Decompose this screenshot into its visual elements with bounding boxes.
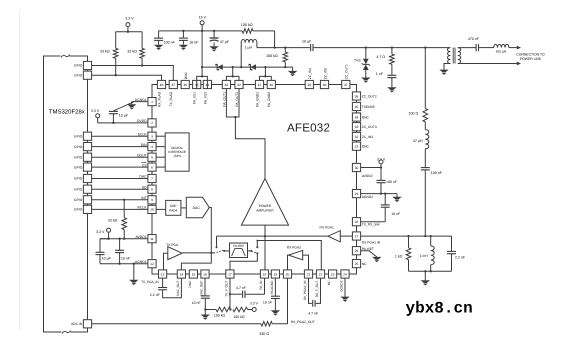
svg-text:PA_VS2: PA_VS2: [203, 92, 207, 104]
capacitor 470 nF: [468, 37, 480, 51]
resistor 33 kΩ (right pull-up): [140, 32, 145, 66]
wire DAC to DAC_OUT (pin 14): [181, 208, 211, 270]
svg-text:100 nF: 100 nF: [431, 171, 443, 175]
svg-text:RX PGA1: RX PGA1: [320, 225, 334, 229]
AFE pin 13 TX_PGA_IN: [141, 270, 167, 284]
AFE pin 8 SD: [142, 185, 156, 193]
svg-text:AGND1: AGND1: [135, 260, 147, 264]
label 100 kΩ: [241, 23, 253, 27]
svg-text:10 µF: 10 µF: [302, 40, 312, 44]
svg-text:42: 42: [237, 83, 241, 87]
label RX_PGA2_OUT: [291, 320, 315, 324]
AFE pin 38 ZC_IN2: [320, 68, 328, 89]
junction 15V rail a: [182, 30, 184, 32]
wire PA_OUT riser: [232, 67, 234, 76]
wire TX PGA input to pin 13: [164, 253, 168, 270]
AFE pin 4 DIN: [141, 143, 156, 151]
wire PA ISET to ground: [361, 251, 382, 263]
label 4.7 nF: [236, 286, 246, 290]
svg-text:RX PGA2: RX PGA2: [287, 246, 301, 250]
wire GPIO to DIN: [92, 146, 148, 148]
wire to TVS node: [314, 47, 450, 49]
wire AGND2: [361, 193, 397, 195]
capacitor 100 nF (15V): [154, 31, 163, 50]
supply terminal 3.3 V (DVDD): [91, 109, 100, 123]
AFE pin 11 AVDD1: [136, 235, 157, 243]
label 330 Ω: [259, 332, 269, 336]
svg-text:3.3 V: 3.3 V: [250, 302, 259, 306]
op-amp TX PGA: [166, 243, 182, 260]
svg-text:1 nF: 1 nF: [376, 72, 384, 76]
wire PA_OUT pin bracket: [226, 89, 239, 118]
svg-text:SCLK: SCLK: [138, 132, 148, 136]
svg-text:ybx8.cn: ybx8.cn: [406, 299, 473, 317]
AFE pin 29 AGND2: [352, 190, 373, 200]
svg-text:5: 5: [151, 155, 153, 159]
wire filter left contact: [224, 250, 229, 252]
resistor 100 kΩ (to gnd): [283, 46, 288, 68]
AFE pin 3 SCLK: [138, 132, 156, 140]
svg-text:15 V: 15 V: [199, 16, 207, 20]
capacitor 4.7 nF (RX coupling): [309, 278, 321, 307]
diode TVS (bidirectional): [361, 48, 370, 83]
DSP pin GPIO (spi 3): [74, 153, 92, 161]
AFE pin 24 DGND2: [339, 270, 349, 292]
op-amp RX PGA2: [287, 246, 303, 260]
svg-text:AVDD1: AVDD1: [136, 235, 147, 239]
svg-text:SD: SD: [142, 185, 147, 189]
wire pull-up rail: [116, 31, 142, 33]
wire ADC IN: [92, 323, 262, 325]
svg-text:DNC: DNC: [188, 280, 192, 288]
wire right throw to TX_F_OUT (pin 17): [230, 253, 257, 270]
svg-text:TX_PGA_IN: TX_PGA_IN: [141, 280, 159, 284]
svg-text:2.2 nF: 2.2 nF: [455, 255, 466, 259]
wire 15V to PA_VS: [201, 31, 203, 67]
resistor 100 Ω: [423, 109, 428, 122]
AFE pin 45 PA_VS1: [193, 80, 201, 104]
svg-text:4.7 nF: 4.7 nF: [308, 312, 318, 316]
AFE pin 39 ZC_IN1: [305, 68, 313, 89]
switch (TX/RX right): [250, 246, 258, 254]
svg-text:24: 24: [343, 272, 347, 276]
wire GPIO to CS: [92, 166, 148, 168]
wire PA_GND riser: [264, 67, 266, 76]
svg-text:ZC_OUT3: ZC_OUT3: [362, 125, 377, 129]
DSP pin GPIO (spi 6): [74, 185, 92, 193]
DSP pin ADC IN: [71, 320, 91, 328]
svg-text:3: 3: [151, 134, 153, 138]
wire line out (neutral): [458, 62, 521, 66]
junction tank top c: [430, 235, 432, 237]
label TVS: [354, 59, 361, 63]
wire r-l: [424, 122, 426, 130]
TMS320F28x label: [49, 108, 85, 115]
svg-text:DVDD: DVDD: [137, 119, 147, 123]
svg-text:26: 26: [355, 249, 359, 253]
svg-text:PA_GND1: PA_GND1: [255, 92, 259, 107]
wire line out (hot): [509, 46, 521, 50]
svg-text:PAD4: PAD4: [169, 208, 177, 212]
DSP pin GPIO (spi 4): [74, 163, 92, 171]
label 10 uF: [102, 256, 112, 260]
resistor 33 kΩ (left pull-up): [113, 32, 118, 75]
AFE pin 22 RX_F_OUT: [315, 270, 325, 297]
svg-text:100 µH: 100 µH: [496, 50, 507, 54]
ground (AGND1): [129, 263, 138, 286]
svg-text:10 nF: 10 nF: [121, 256, 131, 260]
label 100 kΩ: [214, 314, 226, 318]
svg-text:TSENSE: TSENSE: [362, 105, 376, 109]
label 10 nF: [263, 301, 272, 305]
wire right throw to RX_F_OUT (pin 22): [256, 240, 321, 270]
supply terminal 3.3 V (AVDD2): [377, 158, 386, 168]
op-amp RX PGA1: [320, 225, 341, 242]
wire GPIO to DOUT: [92, 156, 148, 158]
svg-text:ZC_IN1: ZC_IN1: [308, 68, 312, 80]
AFE pin 42 PA_OUT2: [235, 80, 243, 106]
svg-text:7: 7: [151, 177, 153, 181]
ground (diode rail): [288, 67, 297, 76]
op-amp POWER AMPLIFIER: [241, 179, 288, 226]
svg-text:47 µF: 47 µF: [220, 40, 230, 44]
capacitor 1 nF: [387, 75, 396, 92]
svg-text:17: 17: [228, 272, 232, 276]
svg-text:RCLK: RCLK: [138, 206, 148, 210]
wire left throw up: [216, 236, 218, 247]
capacitor 10 nF (DAC_REF): [201, 278, 210, 311]
DAC block: [186, 197, 209, 218]
svg-text:TX_F_OUT: TX_F_OUT: [224, 281, 228, 297]
capacitor 2.2 nF: [447, 236, 456, 271]
AFE pin 27 RX PGA1 IN: [352, 232, 380, 244]
DSP pin GPIO (top 2): [74, 71, 92, 79]
svg-text:100 kΩ: 100 kΩ: [214, 314, 226, 318]
label 33 kΩ: [100, 50, 110, 54]
svg-text:AGND2: AGND2: [362, 195, 374, 199]
svg-text:33 kΩ: 33 kΩ: [100, 50, 110, 54]
svg-text:GPIO: GPIO: [74, 73, 83, 77]
svg-text:4: 4: [151, 145, 153, 149]
resistor 100 kΩ (ref high): [233, 307, 252, 312]
junction INT pull-up: [123, 199, 125, 201]
svg-text:GPIO: GPIO: [74, 145, 83, 149]
AFE pin 41 PA_GND1: [255, 80, 263, 107]
svg-text:10 µF: 10 µF: [119, 114, 129, 118]
label 47 uH: [413, 139, 423, 143]
wire RCLK to DSP PAD4: [156, 208, 166, 210]
capacitor 10 nF (AVDD1): [115, 238, 124, 265]
svg-text:37: 37: [344, 83, 348, 87]
svg-text:22: 22: [319, 272, 323, 276]
label 100 kΩ: [266, 54, 278, 58]
svg-text:10: 10: [150, 208, 154, 212]
capacitor 4.7 nF (TX filter): [230, 291, 265, 298]
svg-text:GPIO: GPIO: [74, 208, 83, 212]
diode D2 (clamp to gnd): [249, 64, 256, 70]
AFE pin 30 AVDD2: [352, 163, 372, 177]
wire RX PGA1 IN rail: [361, 235, 426, 237]
svg-text:100 nF: 100 nF: [386, 180, 397, 184]
svg-text:4.7 Ω: 4.7 Ω: [376, 55, 385, 59]
wire AVDD2: [361, 166, 382, 168]
label 10 nF: [192, 301, 201, 305]
svg-text:40: 40: [269, 83, 273, 87]
svg-text:38: 38: [323, 83, 327, 87]
junction 15V rail b: [201, 30, 203, 32]
TMS320F28x DSP box: [44, 54, 88, 334]
svg-text:PA_OUT1: PA_OUT1: [222, 92, 226, 107]
wire 15V rail: [159, 30, 275, 32]
wire GPIO to RX_FLAG (pin 48): [92, 75, 162, 80]
wire PA input rail: [217, 235, 329, 237]
junction 15V rail c: [213, 30, 215, 32]
capacitor 47 uF (15V): [209, 31, 218, 52]
inductor 1 uH: [241, 39, 257, 67]
svg-text:330 Ω: 330 Ω: [259, 332, 269, 336]
wire GPIO to RCLK: [92, 208, 148, 210]
svg-text:100 kΩ: 100 kΩ: [266, 54, 278, 58]
label 1 nF: [376, 72, 384, 76]
AFE pin 23 NC: [327, 270, 337, 285]
AFE pin 48 RX_FLAG: [157, 80, 165, 106]
svg-text:10 µF: 10 µF: [102, 256, 112, 260]
AFE pin 40 PA_GND2: [267, 80, 275, 107]
wire l-c: [424, 149, 426, 168]
svg-text:DOUT: DOUT: [137, 153, 147, 157]
svg-text:RX PGA1 IN: RX PGA1 IN: [362, 240, 381, 244]
AFE pin 43 PA_OUT1: [222, 80, 230, 106]
AFE032 label: [287, 122, 330, 135]
svg-text:DGND1: DGND1: [135, 98, 147, 102]
svg-text:PA_OUT2: PA_OUT2: [235, 92, 239, 107]
wire tank top rail: [425, 235, 451, 237]
capacitor 10 nF (PA AGND): [271, 278, 280, 310]
svg-text:16: 16: [203, 272, 207, 276]
svg-text:1 µH: 1 µH: [245, 46, 253, 50]
label 100 kΩ: [233, 315, 245, 319]
wire diode rail: [202, 66, 293, 68]
supply terminal 15 V: [199, 16, 207, 31]
svg-text:41: 41: [258, 83, 262, 87]
junction 1uH tap: [240, 66, 242, 68]
svg-text:12: 12: [150, 262, 154, 266]
wire feedback down: [273, 31, 275, 49]
svg-text:TX_RX_SW: TX_RX_SW: [362, 222, 381, 226]
label 4.7 Ω: [376, 55, 385, 59]
capacitor 10 uF (DVDD): [109, 111, 118, 124]
svg-text:36: 36: [355, 94, 359, 98]
svg-text:GPIO: GPIO: [74, 198, 83, 202]
wire PA output up to PA_OUT pins: [235, 117, 265, 179]
svg-text:19: 19: [274, 272, 278, 276]
wire TX_RX_SW: [361, 221, 386, 223]
junction PA_OUT riser: [232, 66, 234, 68]
svg-text:POWER LINE: POWER LINE: [520, 57, 542, 61]
AFE pin 33 ZC_OUT3: [352, 123, 376, 131]
AFE pin 44 PA_VS2: [203, 80, 211, 104]
AFE pin 47 TX_FLAG: [169, 80, 177, 106]
AFE pin 2 DVDD: [137, 119, 156, 127]
wire secondary top: [458, 47, 476, 49]
svg-text:18: 18: [263, 272, 267, 276]
svg-text:ZC_IN2: ZC_IN2: [323, 68, 327, 80]
label 100 Ω: [409, 111, 419, 115]
svg-text:30: 30: [355, 166, 359, 170]
capacitor 2.2 nF (DAC coupling): [158, 278, 181, 298]
wire filter right contact: [248, 250, 252, 252]
AFE pin 26 PA ISET: [352, 247, 374, 255]
wire rx chain top: [424, 48, 426, 109]
wire AGND1 rail: [100, 263, 148, 265]
wire PA_IN lower: [264, 278, 266, 294]
supply terminal 3.3 V (ref): [250, 302, 259, 312]
svg-text:PA_IN: PA_IN: [259, 280, 263, 290]
svg-text:ZC_OUT1: ZC_OUT1: [345, 64, 349, 79]
label 33 kΩ: [127, 50, 137, 54]
svg-text:3.3 V: 3.3 V: [96, 230, 105, 234]
label 10 uF: [119, 114, 129, 118]
wire ref divider: [205, 309, 216, 311]
svg-text:AVDD2: AVDD2: [362, 174, 373, 178]
wire tank bottom rail: [409, 270, 452, 272]
svg-text:3.3 V: 3.3 V: [125, 17, 134, 21]
label 47 uF: [220, 40, 230, 44]
resistor 100 kΩ (feedback): [242, 29, 253, 34]
junction DAC/TX wire: [210, 252, 212, 254]
svg-text:FILTER: FILTER: [233, 244, 244, 248]
ground (DAC_REF): [201, 310, 210, 320]
svg-text:GPIO: GPIO: [74, 187, 83, 191]
AFE032 chip outline: [152, 85, 357, 275]
AFE pin 15 DNC: [188, 270, 198, 288]
label 10 nF: [121, 256, 131, 260]
FILTER box: [230, 243, 248, 258]
svg-text:GPIO: GPIO: [74, 64, 83, 68]
svg-text:100 kΩ: 100 kΩ: [233, 315, 245, 319]
DSP pin GPIO (spi 8): [74, 205, 92, 213]
svg-text:TVS: TVS: [354, 59, 361, 63]
AFE pin 31 DNC: [352, 142, 369, 150]
wire PA_OUT top bracket: [226, 75, 239, 80]
label 1 mH: [420, 254, 429, 258]
svg-text:470 nF: 470 nF: [468, 37, 480, 41]
capacitor 10 nF (15V): [179, 31, 188, 50]
resistor 100 kΩ (ref low): [216, 307, 232, 312]
wire TX PGA output: [182, 252, 215, 254]
transformer T1: [447, 48, 460, 64]
svg-text:100 kΩ: 100 kΩ: [241, 23, 253, 27]
svg-text:20: 20: [286, 272, 290, 276]
wire to RX_PGA2_OUT: [272, 278, 287, 324]
svg-text:35: 35: [355, 105, 359, 109]
svg-text:AFE032: AFE032: [287, 122, 330, 135]
AFE pin 46 DNC: [181, 71, 189, 88]
svg-text:TX PGA: TX PGA: [166, 243, 179, 247]
AFE pin 17 TX_F_OUT: [224, 270, 234, 297]
wire DVDD rail: [98, 122, 148, 124]
wire GPIO to TX_FLAG (pin 47): [92, 66, 174, 81]
AFE pin 20 RX_PGA2_OUT: [283, 270, 291, 278]
svg-text:GPIO: GPIO: [74, 155, 83, 159]
svg-text:47: 47: [171, 83, 175, 87]
svg-text:32: 32: [355, 135, 359, 139]
AFE pin 6 CS: [141, 163, 156, 172]
page border line: [19, 10, 21, 330]
wire TX_F_OUT lower: [229, 278, 231, 309]
AFE pin 35 TSENSE: [352, 102, 375, 110]
svg-text:10 nF: 10 nF: [189, 41, 199, 45]
ground (DGND1): [127, 102, 136, 110]
svg-text:POWER: POWER: [259, 204, 272, 208]
junction TVS: [365, 46, 367, 48]
wire GPIO to INT: [92, 199, 148, 201]
svg-text:DAC: DAC: [139, 175, 147, 179]
label 2.2 nF: [150, 293, 160, 297]
AFE pin 14 DAC_OUT: [176, 270, 186, 296]
svg-text:RX_FLAG: RX_FLAG: [157, 91, 161, 106]
svg-text:29: 29: [355, 192, 359, 196]
svg-text:DAC_OUT: DAC_OUT: [176, 281, 180, 296]
ground (tank): [421, 271, 430, 285]
svg-text:11: 11: [150, 237, 154, 241]
svg-text:NC: NC: [327, 280, 331, 285]
wire PA out coupling: [257, 47, 310, 49]
AFE pin 19 PA AGND: [270, 270, 280, 294]
wire PA_VS pin bracket: [197, 67, 208, 89]
svg-text:PA_GND2: PA_GND2: [267, 92, 271, 107]
AFE pin 28 TX_RX_SW: [352, 218, 380, 227]
svg-text:1 kΩ: 1 kΩ: [395, 255, 403, 259]
svg-text:PA AGND: PA AGND: [270, 280, 274, 294]
SPI stub wires: [156, 136, 165, 167]
resistor 1 kΩ: [406, 236, 411, 271]
ground (DGND2): [340, 278, 349, 302]
resistor 33 kΩ (INT pull-up): [122, 200, 127, 240]
svg-text:31: 31: [355, 144, 359, 148]
svg-text:DNC: DNC: [184, 71, 188, 79]
junction line filter tap: [424, 46, 426, 48]
junction on GPIO/TX_FLAG wire: [141, 64, 143, 66]
svg-text:1: 1: [151, 100, 153, 104]
junction 15V/diode: [201, 66, 203, 68]
DSP pin GPIO (spi 7): [74, 196, 92, 204]
svg-text:(SPI): (SPI): [174, 154, 181, 158]
label 1 uH: [245, 46, 253, 50]
watermark ybx8.cn: [406, 299, 473, 317]
wire to line inductor: [479, 47, 494, 49]
capacitor 100 nF (rx): [421, 168, 443, 176]
wire GPIO to SD: [92, 188, 148, 190]
label 1 kΩ: [395, 255, 403, 259]
svg-text:DAC: DAC: [193, 206, 201, 210]
svg-text:RX_PGA2_OUT: RX_PGA2_OUT: [291, 320, 315, 324]
AFE pin 9 INT: [141, 196, 156, 204]
svg-text:33: 33: [355, 125, 359, 129]
svg-text:INT: INT: [141, 196, 146, 200]
svg-text:DGND2: DGND2: [339, 280, 343, 291]
DSP pin GPIO (spi 2): [74, 143, 92, 151]
wire RX PGA2 output to pin 20: [288, 255, 289, 270]
DSP PAD4 box: [166, 200, 181, 215]
AFE pin 36 ZC_OUT2: [352, 92, 376, 100]
capacitor 10 nF (TX_RX_SW): [381, 192, 390, 221]
DSP pin GPIO (spi 1): [74, 132, 92, 140]
AFE pin 21 RX_PGA2_IN: [303, 270, 313, 300]
AFE pin 37 ZC_OUT1: [342, 64, 350, 89]
svg-text:47 µH: 47 µH: [413, 139, 423, 143]
label 10 nF: [189, 41, 199, 45]
